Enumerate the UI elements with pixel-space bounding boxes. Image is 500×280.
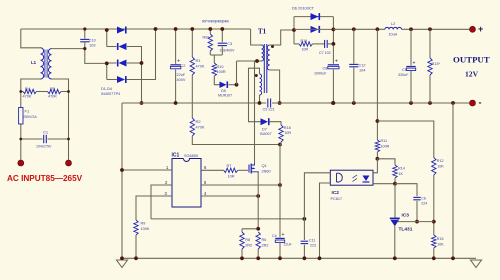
capacitor C1 <box>36 130 52 149</box>
diode D7 <box>260 118 272 136</box>
diode D6b <box>311 26 320 33</box>
svg-text:-: - <box>479 98 482 108</box>
svg-text:330uF: 330uF <box>398 73 409 77</box>
resistor R9 <box>134 220 150 235</box>
capacitor C7 <box>319 40 331 55</box>
junction dot pin1 <box>120 168 124 172</box>
wire R8 top <box>241 229 243 232</box>
svg-text:D5: D5 <box>221 89 226 93</box>
wire D6 top row <box>294 16 333 18</box>
wire C6 top <box>395 184 417 197</box>
transistor Q1 <box>249 163 271 174</box>
IC3 TL431 <box>390 213 413 233</box>
wire C3 top <box>221 29 223 42</box>
wire C11 top <box>303 219 305 240</box>
wire D6 right col <box>332 17 334 64</box>
wire IC2 anode <box>373 159 377 173</box>
junction dot primary bottom <box>255 59 259 63</box>
wire R5 end <box>61 91 69 93</box>
polarity dot aux <box>255 74 258 77</box>
svg-text:C4: C4 <box>272 234 277 238</box>
wire R16-C7 <box>313 43 325 45</box>
capacitor C4 <box>272 232 292 246</box>
wire 12V rail <box>333 28 385 30</box>
optocoupler IC2 phototransistor <box>337 173 343 182</box>
capacitor C3 <box>218 42 235 53</box>
svg-text:10R: 10R <box>284 131 291 135</box>
op-amp U2 IC2 PC817 box <box>330 170 373 185</box>
junction dot C6 ref <box>415 220 419 224</box>
pin number 1 <box>166 165 169 170</box>
wire C1 left <box>21 138 43 140</box>
svg-text:R5: R5 <box>50 86 56 91</box>
resistor R7 <box>224 164 238 179</box>
wire C2 vertical <box>175 29 177 64</box>
optocoupler IC2 LED <box>353 175 370 182</box>
wire TL431 anode <box>394 226 396 258</box>
junction dots C2 <box>174 27 178 105</box>
wire secondary gnd bus <box>272 102 473 104</box>
wire C4 bottom <box>279 242 281 258</box>
svg-text:104/275V: 104/275V <box>36 145 52 149</box>
wire R18 to VCC <box>280 142 281 145</box>
wire L1 right to C10 node <box>52 48 85 50</box>
wire pin1 gnd <box>122 169 172 171</box>
svg-text:C1: C1 <box>43 130 49 135</box>
junction dots rail <box>352 27 379 31</box>
label plus <box>478 24 483 34</box>
svg-text:IC1: IC1 <box>172 153 180 159</box>
junction dot C11 gnd <box>303 256 307 260</box>
pin number 5 <box>204 180 207 185</box>
wire D7 to R18 <box>270 122 281 125</box>
svg-text:2R2: 2R2 <box>262 244 269 248</box>
junction dot sense <box>303 217 307 221</box>
wire R14 top <box>377 159 395 165</box>
wire pin5 VCC <box>201 184 280 186</box>
wire drain vertical <box>254 61 256 163</box>
svg-text:104: 104 <box>359 69 365 73</box>
label D1-D4 <box>101 87 120 96</box>
svg-text:R15: R15 <box>437 237 444 241</box>
resistor R8 <box>240 232 252 249</box>
junction dot secondary gnd <box>278 101 282 105</box>
svg-text:470K: 470K <box>196 65 205 69</box>
svg-text:IN4007: IN4007 <box>260 132 272 136</box>
svg-text:SG6859: SG6859 <box>184 154 198 158</box>
junction dots D6 right <box>332 28 336 105</box>
svg-text:C6: C6 <box>421 197 426 201</box>
diode D3 <box>118 60 127 67</box>
wire R4-R5 <box>37 91 48 93</box>
svg-text:OUTPUT: OUTPUT <box>453 55 490 65</box>
wire clamp row <box>210 54 222 56</box>
svg-text:12V: 12V <box>465 70 479 79</box>
junction dot R14 <box>393 182 397 186</box>
wire Q1 source <box>257 173 259 229</box>
svg-text:R10: R10 <box>217 65 224 69</box>
diode D1 <box>117 27 126 34</box>
svg-text:R8: R8 <box>245 238 250 242</box>
svg-text:2N60: 2N60 <box>262 170 271 174</box>
capacitor C5 <box>263 99 275 112</box>
svg-text:R9*=040K|040K|040K: R9*=040K|040K|040K <box>202 20 230 24</box>
wire R14 bottom <box>394 178 396 184</box>
wire C12 low <box>353 68 355 103</box>
junction dot TL431 gnd <box>393 256 397 260</box>
svg-text:R2: R2 <box>196 119 202 124</box>
resistor R5 <box>48 86 62 99</box>
wire sense row <box>151 218 304 220</box>
junction dots C1 <box>19 138 70 141</box>
svg-text:1000uF: 1000uF <box>314 72 327 76</box>
wire D6 left col <box>293 17 295 44</box>
svg-text:D7: D7 <box>262 128 267 132</box>
pin number 3 <box>165 191 168 196</box>
op-amp U1 IC1 SG6859 box <box>172 159 201 208</box>
junction dot C10 top <box>83 27 86 50</box>
junction dot R11 tap <box>376 119 380 123</box>
resistor R18 <box>279 125 292 142</box>
capacitor C11 <box>301 239 316 248</box>
ground primary <box>117 260 128 268</box>
svg-text:10K: 10K <box>437 243 444 247</box>
fuse F1 <box>19 108 38 125</box>
wire clamp drop <box>236 61 238 85</box>
label OUTPUT <box>453 55 490 65</box>
wire sense rail <box>242 228 258 230</box>
svg-text:C2: C2 <box>181 64 186 68</box>
wire R6 bottom <box>257 249 259 258</box>
resistor R2 <box>190 118 205 136</box>
svg-text:R13*: R13* <box>432 62 441 66</box>
svg-text:C11: C11 <box>309 239 315 243</box>
pin number 6 <box>204 165 207 170</box>
wire C10 riser <box>84 29 86 39</box>
svg-text:+: + <box>413 60 416 66</box>
junction dots clamp top <box>208 27 224 31</box>
label minus <box>479 98 482 108</box>
wire secondary top <box>270 30 294 45</box>
diode D2 <box>118 43 127 50</box>
capacitor C6 <box>413 197 427 206</box>
label IC1 <box>172 153 198 159</box>
junction dot C4 gnd <box>278 256 282 260</box>
label D6 <box>292 6 315 11</box>
junction dot 0V tie <box>451 256 455 260</box>
wire R12 bottom <box>433 175 435 235</box>
junction dot pin4 <box>256 194 260 198</box>
wire R13 bottom <box>429 75 431 103</box>
wire C12 <box>353 29 355 63</box>
wire 0V tie <box>452 103 454 258</box>
junction dots R4R5 <box>19 90 70 93</box>
svg-text:470K: 470K <box>23 95 32 99</box>
svg-text:C3: C3 <box>227 42 232 46</box>
wire secondary bottom <box>270 70 280 103</box>
svg-text:R9*: R9* <box>203 36 210 40</box>
svg-text:R12: R12 <box>437 159 444 163</box>
resistor R4 <box>23 86 37 99</box>
resistor R13 <box>428 58 441 75</box>
wire primary gnd drop <box>121 103 123 258</box>
capacitor C10 <box>80 39 96 48</box>
wire D3 right <box>127 62 142 64</box>
svg-text:D1-D4: D1-D4 <box>101 87 112 91</box>
svg-text:224: 224 <box>421 202 427 206</box>
svg-text:R7: R7 <box>227 164 232 168</box>
AC terminal N <box>66 160 72 166</box>
svg-text:R9: R9 <box>141 222 146 226</box>
wire C8 low <box>332 70 334 104</box>
junction dot R9 gnd <box>134 256 138 260</box>
resistor R12 <box>432 158 445 176</box>
wire TL431 cathode <box>394 184 396 218</box>
ground secondary <box>471 260 482 268</box>
svg-text:R14: R14 <box>398 167 405 171</box>
wire bridge left col 2 <box>106 63 108 79</box>
wire R16 stub <box>294 43 299 45</box>
junction dot ref <box>432 220 436 224</box>
inductor L2 <box>385 22 402 37</box>
svg-text:R18: R18 <box>284 126 291 130</box>
wire VCC vertical <box>279 145 281 238</box>
capacitor C9 <box>398 60 416 77</box>
diode D4 <box>117 76 126 83</box>
svg-text:+: + <box>282 232 285 238</box>
wire pin4 sense <box>201 195 258 197</box>
resistor R14 <box>393 165 405 178</box>
svg-text:L2: L2 <box>391 22 395 26</box>
svg-text:IC3: IC3 <box>402 213 410 219</box>
wire primary bottom <box>237 60 262 62</box>
junction dot pin5 <box>278 183 282 187</box>
svg-text:R6: R6 <box>262 238 267 242</box>
transformer T1 secondary <box>267 45 270 70</box>
capacitor C8 <box>314 59 339 76</box>
svg-text:10uH: 10uH <box>389 33 398 37</box>
resistor R15 <box>432 235 445 248</box>
junction dot R15 gnd <box>432 256 436 260</box>
inductor L1 <box>31 48 52 79</box>
wire C2 vertical low <box>175 70 177 104</box>
wire pin2 FB <box>151 185 172 219</box>
wire C7 right <box>327 43 333 45</box>
svg-text:IC2: IC2 <box>332 190 340 196</box>
wire C11 bottom <box>303 245 305 259</box>
wire C1 right <box>48 138 69 140</box>
wire bottom bus <box>122 257 476 259</box>
label R9 note <box>202 20 230 24</box>
svg-text:C7 102: C7 102 <box>319 51 331 55</box>
wire R10 top <box>213 55 215 63</box>
wire top bus <box>21 28 251 30</box>
resistor R11 <box>375 139 389 152</box>
svg-text:C8: C8 <box>323 67 328 71</box>
junction dots bridge <box>105 27 158 105</box>
diode D5 <box>218 81 232 97</box>
wire bridge left col <box>106 29 108 47</box>
wire C9 <box>410 29 412 65</box>
junction dot source rail <box>256 227 260 231</box>
junction dot D6 left <box>292 28 296 32</box>
label T1 <box>258 28 267 36</box>
wire R9 bottom <box>135 235 137 258</box>
resistor R1 <box>190 57 205 75</box>
junction dot aux gnd <box>258 101 262 105</box>
wire AC line left upper <box>21 29 41 48</box>
svg-text:C10: C10 <box>89 39 96 43</box>
wire R2 to VCC node <box>192 136 280 145</box>
transformer T1 core <box>264 44 267 93</box>
label AC input <box>7 174 83 183</box>
svg-text:100K: 100K <box>141 227 150 231</box>
wire IC2 collector <box>304 173 330 219</box>
wire primary gnd bus <box>122 102 266 104</box>
svg-text:10R: 10R <box>302 48 309 52</box>
wire primary top feed <box>251 29 262 45</box>
svg-text:L1: L1 <box>31 60 37 65</box>
wire R9* bottom <box>209 51 211 55</box>
diode D6a <box>311 13 320 20</box>
polarity dot secondary <box>271 45 274 48</box>
wire pin3 to R9 <box>136 196 172 220</box>
svg-text:100R: 100R <box>381 145 390 149</box>
wire aux bottom <box>259 95 261 103</box>
svg-text:223: 223 <box>310 244 316 248</box>
wire AC line right lower <box>52 79 69 163</box>
pin number 4 <box>204 191 207 196</box>
wire R1-R2 <box>191 75 193 118</box>
wire D5 to drain <box>229 84 237 86</box>
svg-text:IN4007TP4: IN4007TP4 <box>101 92 120 96</box>
svg-text:10K: 10K <box>437 165 444 169</box>
svg-text:D6 20100CT: D6 20100CT <box>292 6 315 11</box>
junction dot D5 drain <box>235 83 239 87</box>
svg-text:10R: 10R <box>228 175 235 179</box>
junction dot IC2 emitter gnd <box>318 256 322 260</box>
svg-text:103: 103 <box>89 44 95 48</box>
wire R15 bottom <box>433 248 435 258</box>
wire R1 top <box>191 29 193 57</box>
svg-text:250V/2A: 250V/2A <box>23 115 37 119</box>
svg-text:C9: C9 <box>402 68 407 72</box>
wire C10 to node <box>85 43 107 64</box>
svg-text:22uF: 22uF <box>284 243 293 247</box>
svg-text:470K: 470K <box>48 95 57 99</box>
wire aux top to D7 <box>249 68 261 122</box>
junction dots rail2 <box>409 27 432 31</box>
wire D2 right <box>127 47 142 104</box>
svg-text:+: + <box>478 24 483 34</box>
svg-text:2R2: 2R2 <box>245 244 252 248</box>
svg-text:C12: C12 <box>359 64 366 68</box>
output + terminal <box>470 26 476 32</box>
svg-text:C5 221: C5 221 <box>263 108 275 112</box>
resistor R16 <box>299 39 313 52</box>
svg-text:R16: R16 <box>301 39 308 43</box>
wire R11 bottom <box>376 152 378 159</box>
label 12V <box>465 70 479 79</box>
svg-text:100R: 100R <box>217 70 226 74</box>
wire R7 to gate <box>238 169 248 171</box>
transformer T1 aux winding <box>260 74 262 95</box>
transformer T1 primary <box>262 45 264 61</box>
wire D2 stub <box>107 46 117 48</box>
wire C9 low <box>410 71 412 103</box>
svg-text:22uF: 22uF <box>177 73 186 77</box>
capacitor C12 <box>349 64 365 73</box>
resistor R10 <box>212 63 226 76</box>
wire IC2 cathode <box>373 183 395 185</box>
wire R11 feed <box>376 29 378 140</box>
resistor R6 <box>256 232 268 249</box>
pin number 2 <box>165 180 168 185</box>
svg-text:470K: 470K <box>196 126 205 130</box>
wire R8 bottom <box>241 249 243 258</box>
svg-text:PC817: PC817 <box>331 197 343 201</box>
junction dots sense gnd <box>240 256 260 260</box>
wire D3 stub <box>107 62 117 64</box>
wire AC line left lower <box>21 79 41 163</box>
svg-text:Q1: Q1 <box>262 163 268 168</box>
svg-text:R1: R1 <box>196 58 202 63</box>
wire ref row <box>398 221 434 223</box>
wire D6 bottom row <box>294 28 333 30</box>
AC terminal L <box>18 160 24 166</box>
wire IC2 emitter <box>320 183 331 258</box>
wire divider top <box>377 121 433 158</box>
wire pin6 to R7 <box>201 169 224 171</box>
wire R13 top <box>429 29 431 58</box>
svg-text:TL431: TL431 <box>399 227 413 233</box>
resistor R9* <box>203 34 213 51</box>
svg-text:400V: 400V <box>177 78 186 82</box>
wire C3 bottom <box>221 47 223 55</box>
junction dot gnd left <box>120 256 124 260</box>
wire C6 bottom <box>416 201 418 222</box>
svg-text:AC INPUT85—265V: AC INPUT85—265V <box>7 174 83 183</box>
wire 12V rail 2 <box>402 28 473 30</box>
wire D4 right <box>127 29 156 80</box>
junction dots out rail <box>331 101 455 105</box>
svg-text:R4: R4 <box>25 86 31 91</box>
svg-text:MUR107: MUR107 <box>218 94 232 98</box>
svg-text:F1: F1 <box>25 109 30 114</box>
svg-text:T1: T1 <box>258 28 267 36</box>
label IC2 <box>331 190 343 201</box>
wire R4R5 row <box>21 91 23 93</box>
junction dots R1 top VCC <box>190 27 281 146</box>
wire D4 stub <box>107 79 117 81</box>
svg-text:1K: 1K <box>399 172 404 176</box>
svg-text:+: + <box>335 59 338 65</box>
junction dot R11 out <box>376 157 380 161</box>
wire R9* top <box>209 29 211 34</box>
svg-text:R11: R11 <box>381 139 388 143</box>
capacitor C2 <box>170 59 185 82</box>
output - terminal <box>470 100 476 106</box>
wire R10 to D5 <box>214 76 219 85</box>
